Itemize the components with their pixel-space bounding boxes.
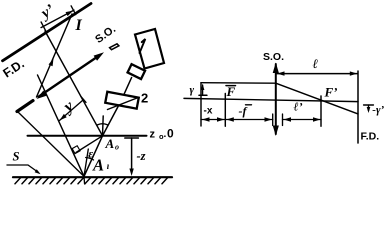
condenser 2 (tilted box) — [105, 92, 139, 109]
svg-text:z: z — [150, 129, 156, 141]
normal extension below surface — [83, 176, 86, 184]
tick left of lens — [272, 114, 274, 126]
refracted ray through F' to detector — [276, 83, 358, 114]
label 1 (stroke inside lamp) — [140, 39, 146, 53]
dimension -z tick — [125, 137, 139, 139]
dimension line y' along detector — [41, 10, 74, 28]
label y' (rotated) — [37, 1, 58, 23]
right-angle mark — [72, 146, 80, 154]
arrowhead of y dimension — [58, 114, 67, 122]
svg-text:F.D.: F.D. — [361, 131, 380, 143]
lens bottom arrowhead — [273, 126, 279, 137]
svg-text:o: o — [115, 143, 119, 152]
svg-text:I: I — [75, 17, 83, 34]
ray LB from objective to point A1 — [38, 75, 85, 176]
tick mark 2 on y' dimension — [71, 6, 76, 15]
svg-text:ℓ: ℓ — [313, 56, 319, 71]
svg-text:-x: -x — [204, 106, 213, 117]
lens S.O. (vertical double arrow) — [275, 64, 277, 134]
label S.O. (rotated) — [93, 23, 118, 46]
tick mark 1 on y' dimension — [41, 22, 46, 31]
dimension l' — [283, 119, 322, 121]
optical axis — [184, 98, 358, 101]
back focus F' tick — [320, 96, 322, 126]
objective axis shaft S.O. — [39, 57, 98, 97]
illumination ray R4 from lamp through condenser to A1 — [84, 78, 132, 177]
arrowhead l right — [350, 71, 358, 75]
svg-text:-z: -z — [137, 149, 146, 163]
object top line — [201, 82, 276, 85]
normal at A1 — [84, 149, 88, 176]
ray R1 from detector tick 1 to point A0 — [45, 31, 103, 136]
label y (rotated) — [58, 96, 77, 117]
tick at upper end of y dimension — [81, 97, 86, 103]
lamp 1 (tilted box) — [135, 29, 164, 69]
ray R2 from image I to objective — [37, 14, 73, 97]
condenser diagonal — [108, 98, 138, 110]
svg-text:0: 0 — [167, 127, 174, 141]
detector plane F.D. (vertical line) — [357, 71, 359, 143]
svg-text:S: S — [13, 150, 20, 164]
leader arrowhead — [35, 169, 42, 175]
svg-text:2: 2 — [141, 91, 148, 106]
arrowhead l left — [277, 71, 285, 75]
surface S ground line — [13, 176, 172, 178]
objective mount segment (thick, lower-left) — [17, 101, 33, 112]
svg-text:-γ’: -γ’ — [372, 104, 384, 116]
ray from mirror end to point A1 (45 deg) — [19, 113, 85, 177]
tick right of lens — [282, 114, 284, 126]
svg-text:γ: γ — [190, 84, 195, 96]
svg-text:-f: -f — [239, 104, 248, 118]
dimension -z vertical line — [131, 138, 133, 172]
gamma dimension arrow — [202, 85, 204, 95]
angle arc epsilon at A1 — [86, 158, 94, 160]
objective axis upper arrowhead toward S.O. — [94, 50, 106, 61]
label F.D. (rotated) — [1, 57, 27, 81]
leader from S to surface — [7, 165, 39, 173]
arrowhead -z pointing to surface — [129, 169, 133, 177]
F.D. detector plane (tilted thick line) — [3, 4, 92, 61]
dimension -f bar — [225, 119, 272, 121]
aperture tick (small parallelogram) — [110, 44, 119, 50]
svg-text:S.O.: S.O. — [263, 51, 284, 63]
objective axis lower arrowhead — [35, 91, 47, 102]
dimension -x — [201, 119, 225, 121]
vertical normal above A0 — [102, 116, 105, 136]
svg-text:ℓ’: ℓ’ — [294, 100, 303, 114]
svg-text:A: A — [92, 156, 104, 175]
arrowhead on ray R2 — [49, 58, 56, 67]
perpendicular from A0 to ray LB — [76, 136, 103, 153]
surface hatching — [15, 178, 168, 184]
dimension y between rays — [59, 100, 84, 121]
front focus tick — [224, 94, 226, 127]
gamma dimension foot tick — [199, 94, 207, 96]
overbar of F — [226, 85, 236, 87]
svg-text:A: A — [105, 136, 115, 151]
object vertical / dimension tick at left — [200, 83, 202, 126]
arrowhead of y' dimension — [66, 9, 75, 16]
lamp nozzle — [128, 64, 146, 79]
lens top arrowhead — [273, 63, 279, 74]
reference plane z0 line — [28, 135, 147, 137]
svg-text:F’: F’ — [324, 85, 338, 100]
image height -gamma' dimension — [364, 104, 374, 106]
angle arc at A0 — [97, 124, 107, 125]
dimension l from lens to detector — [277, 73, 358, 75]
